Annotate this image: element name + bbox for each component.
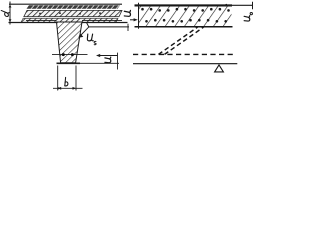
- web bottom extension line to reference: [80, 62, 119, 64]
- label u (rotated) for bottom slip arrow: [105, 57, 111, 63]
- rebar line with two bar dots: [52, 54, 88, 56]
- concrete dots: [141, 8, 230, 23]
- label u0 (rotated): [244, 12, 252, 21]
- dimension d: vertical dimension line at left: [9, 2, 12, 25]
- label u_s: [87, 34, 96, 45]
- slip arrow u (top, pointing right at slab2 face): [130, 19, 136, 21]
- slab hatched strip A (dark textured): [27, 5, 121, 9]
- web (hatched trapezoid): [57, 22, 83, 63]
- tick at end of ledge line: [127, 24, 129, 31]
- slab2 hatched body: [139, 6, 232, 26]
- slab soffit line lower: [9, 22, 57, 24]
- slab2 left end face: [138, 3, 140, 29]
- slab hatched strip B: [24, 10, 122, 16]
- slab top line: [9, 3, 122, 5]
- dimension b below web: [53, 66, 83, 91]
- web bottom thick line: [57, 62, 81, 64]
- dashed diagonal slip lines: [159, 27, 198, 54]
- label d (rotated): [0, 10, 9, 16]
- label u (rotated) for top slip arrow: [124, 10, 130, 16]
- u0 reference line to right with end tick: [224, 4, 253, 6]
- vertical reference line at right of web bottom: [117, 53, 119, 70]
- solid beam line: [133, 63, 237, 65]
- label b: [65, 77, 68, 86]
- slab2 bottom line: [135, 26, 233, 28]
- ledge step line to the right of web: [87, 23, 130, 27]
- slab2 top line (thick): [135, 4, 233, 6]
- dashed beam axis line: [133, 53, 236, 55]
- slab soffit line upper: [26, 19, 57, 21]
- slip arrow u (bottom right of web, pointing left): [98, 55, 118, 57]
- support triangle: [215, 65, 224, 72]
- u_s arrow pointing to web edge: [80, 27, 89, 36]
- slab hatched strip C: [21, 18, 118, 22]
